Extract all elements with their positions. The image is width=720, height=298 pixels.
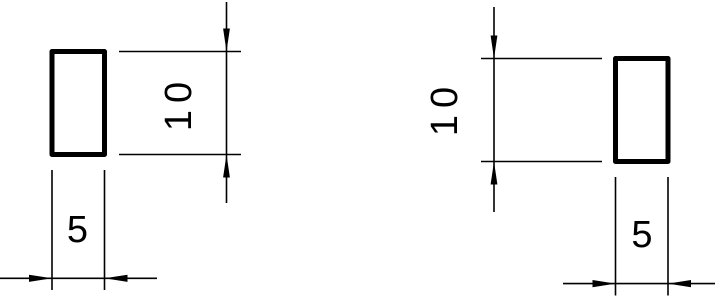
left height dimension: lower arrowhead (points up) [223,155,230,178]
right width dimension: left arrowhead (points right) [593,280,616,287]
svg-text:10: 10 [158,75,200,131]
left width dimension line (horizontal, arrows outside) [0,277,157,279]
right part outline rectangle [616,59,669,162]
left width dimension: left arrowhead (points right) [29,275,52,282]
svg-text:5: 5 [67,209,88,251]
right height dimension: lower arrowhead (points up) [491,162,498,185]
right height dimension: top extension line [481,58,602,60]
left height dimension: bottom extension line [119,154,241,156]
left width dimension: right arrowhead (points left) [105,275,128,282]
right width dimension line (horizontal, arrows outside) [563,283,715,285]
left height dimension: top extension line [119,51,241,53]
right height dimension: bottom extension line [481,161,602,163]
right height dimension line (vertical, arrows outside) [493,7,495,212]
left width dimension: left extension line [51,170,53,290]
right height dimension: upper arrowhead (points down) [491,36,498,59]
right width dimension: right extension line [667,177,669,296]
left part outline rectangle [52,52,105,155]
left width dimension: right extension line [104,170,106,290]
svg-text:5: 5 [631,214,652,256]
svg-text:10: 10 [424,80,466,136]
right width dimension: right arrowhead (points left) [668,280,691,287]
left height dimension line (vertical, arrows outside) [226,2,228,203]
left height dimension: upper arrowhead (points down) [223,29,230,52]
right width dimension: left extension line [615,177,617,296]
